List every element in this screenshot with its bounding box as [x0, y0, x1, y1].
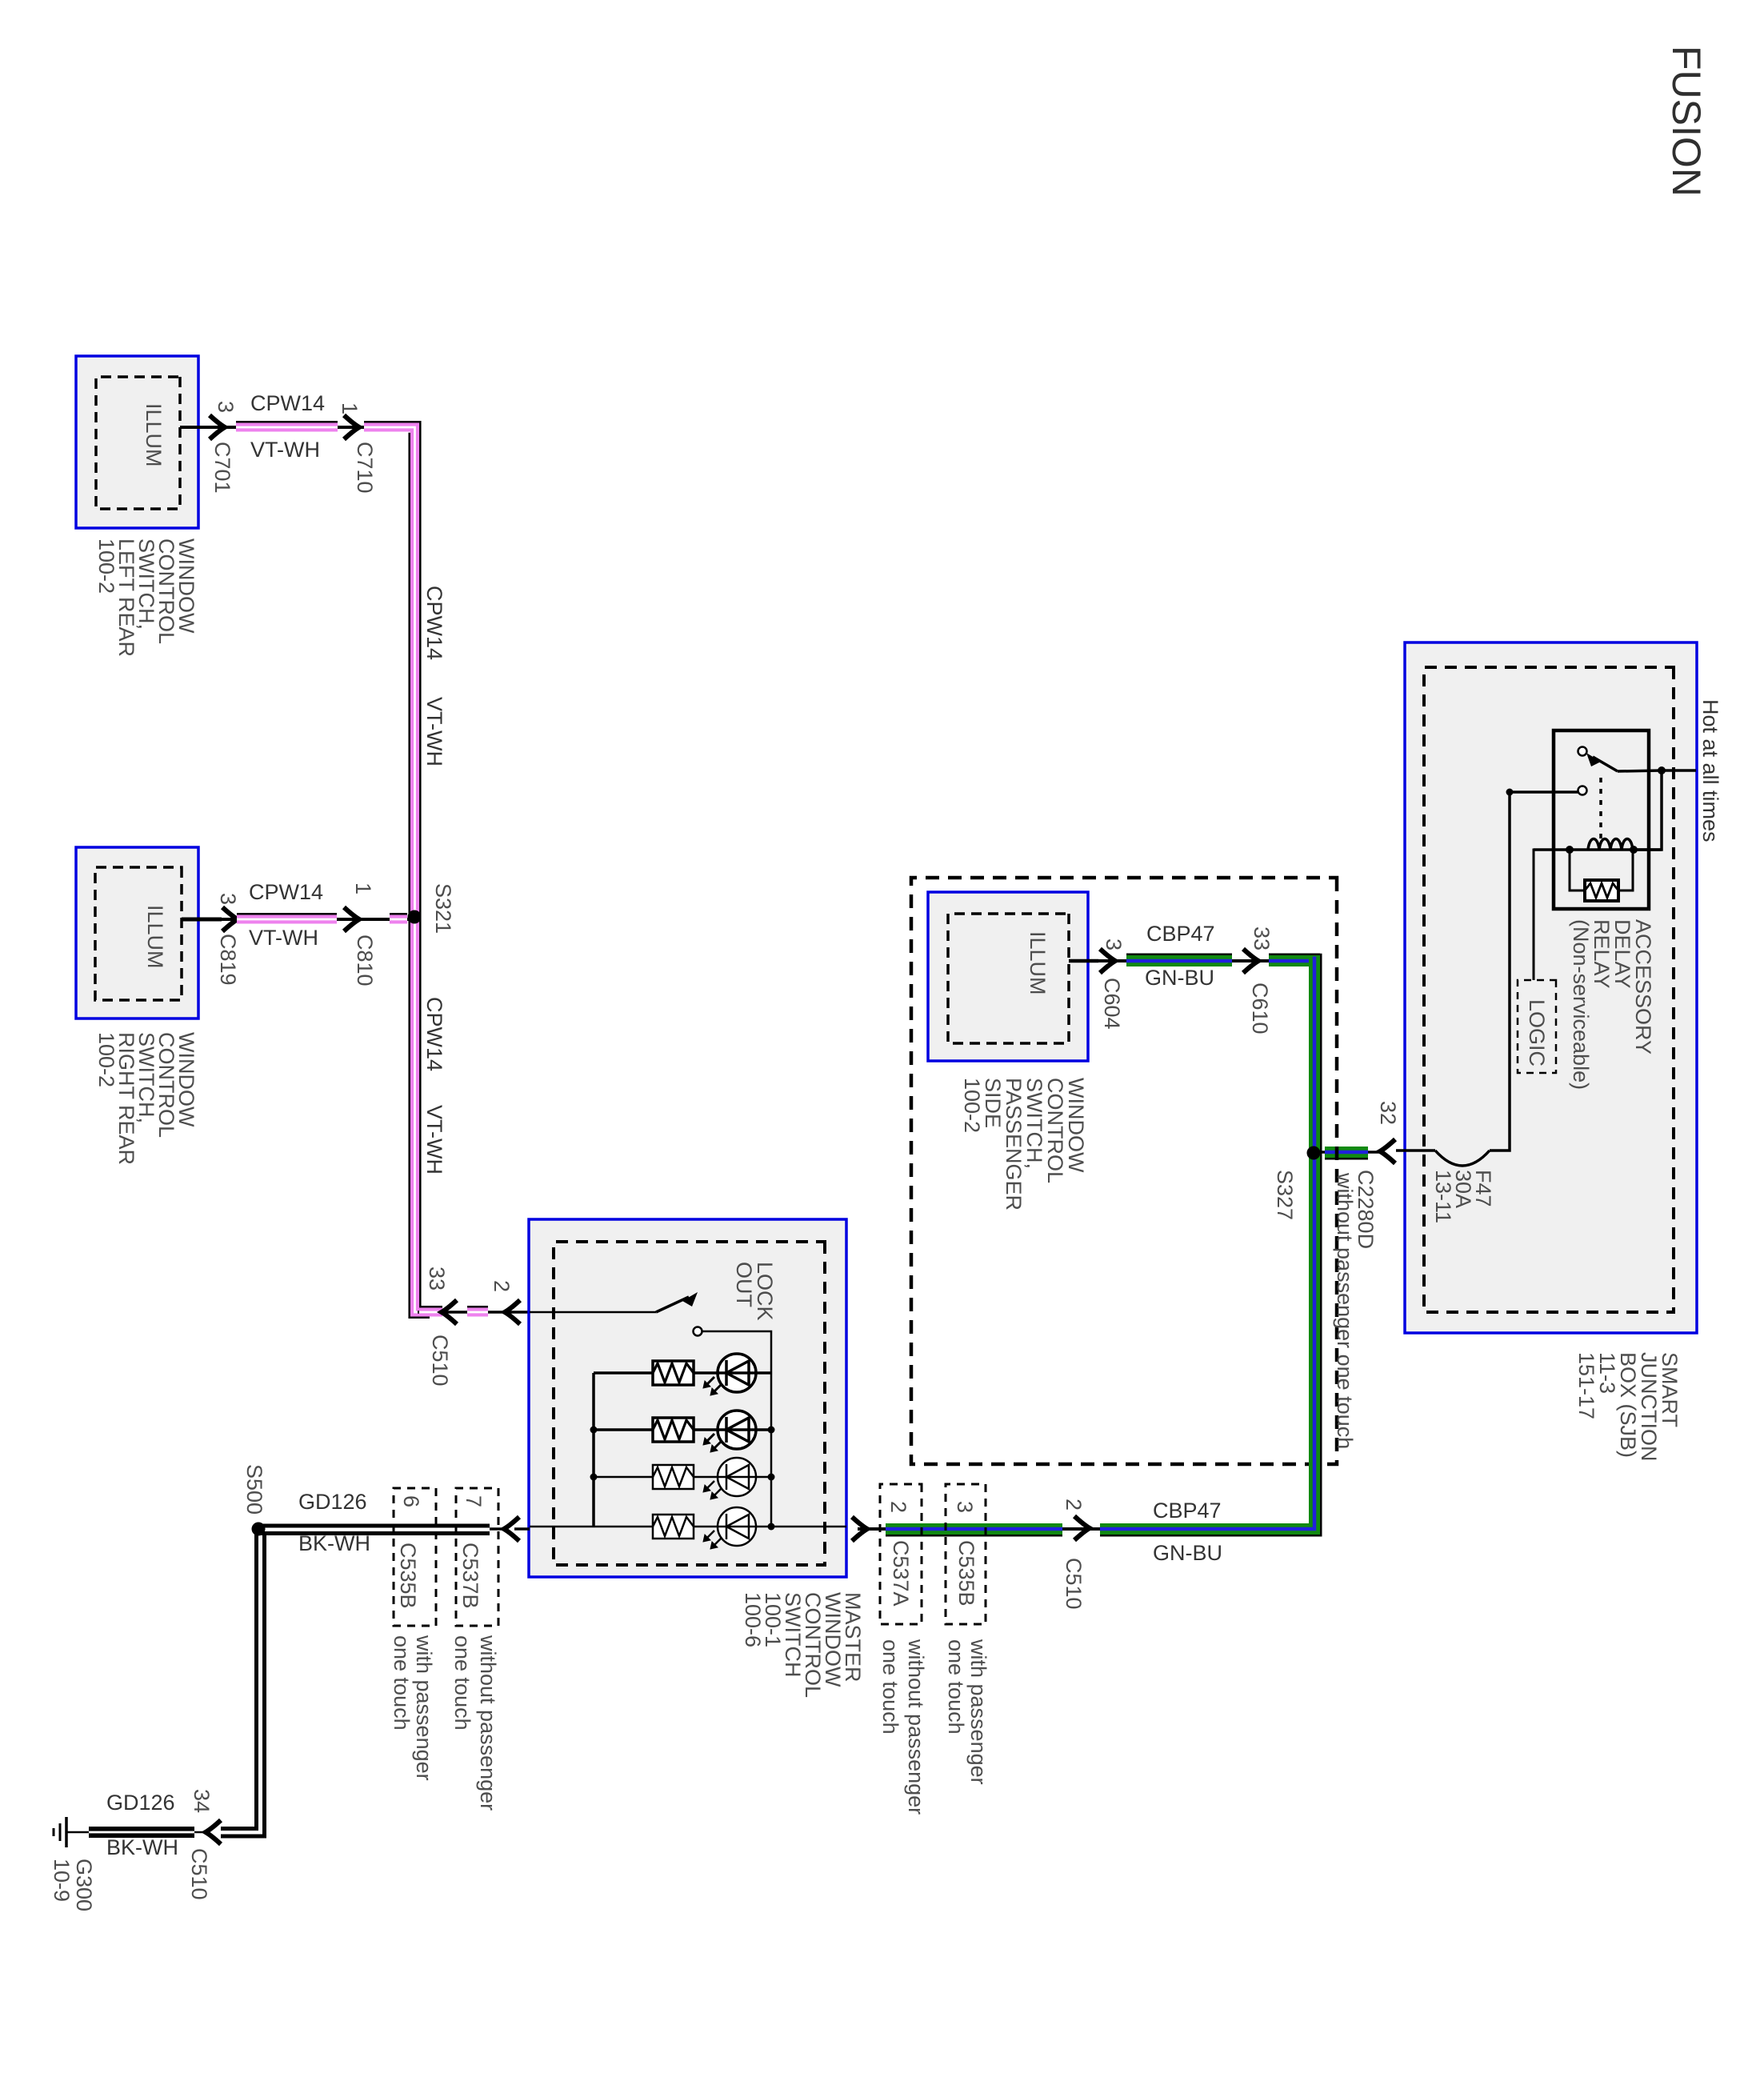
node feed junction: [1658, 766, 1666, 774]
wire riser band upper piece: [1269, 954, 1320, 961]
fuse F47: [1435, 1151, 1490, 1166]
svg-text:CPW14: CPW14: [249, 880, 323, 904]
wire GN-BU run lower band: [886, 1529, 1062, 1535]
LED D3: [718, 1458, 756, 1496]
wire CBP47 GN-BU labeled segment: [1126, 954, 1232, 961]
svg-text:S500: S500: [242, 1464, 266, 1515]
lockout switch blade: [656, 1297, 689, 1312]
svg-text:VT-WH: VT-WH: [422, 1105, 446, 1175]
wire from master box to GD126 arrow: [514, 1527, 530, 1531]
wire riser2 centerline: [182, 918, 414, 921]
window control switch passenger side dashed box: [911, 878, 1337, 1464]
svg-text:C535B: C535B: [954, 1540, 978, 1607]
wire coil top to resistor: [1618, 850, 1633, 890]
svg-text:151-17: 151-17: [1574, 1352, 1598, 1419]
svg-text:VT-WH: VT-WH: [250, 438, 320, 462]
svg-text:CPW14: CPW14: [422, 586, 446, 660]
window control switch left rear box: [76, 356, 198, 528]
svg-text:GN-BU: GN-BU: [1153, 1541, 1222, 1565]
node S500: [252, 1523, 266, 1536]
svg-text:2: 2: [1062, 1499, 1086, 1511]
wire CBP47 GN-BU bus bands: [1100, 954, 1321, 1535]
wire main line through box: [530, 1526, 846, 1528]
svg-text:S327: S327: [1273, 1170, 1297, 1220]
LED D2: [718, 1411, 756, 1449]
svg-text:with passenger: with passenger: [966, 1639, 990, 1785]
svg-text:C535B: C535B: [396, 1543, 420, 1609]
connector arrow box bottom: [504, 1517, 519, 1541]
ground G300: [66, 1831, 89, 1834]
wire C2280D stub centerline: [1314, 1151, 1380, 1154]
node dots bottom bus: [590, 1427, 598, 1434]
svg-text:13-11: 13-11: [1431, 1170, 1455, 1223]
svg-text:100-2: 100-2: [960, 1078, 984, 1133]
svg-text:Hot at all times: Hot at all times: [1698, 699, 1722, 842]
connector arrow 3 C701: [210, 415, 225, 439]
dashed actuator link: [1599, 778, 1602, 843]
LOGIC block: [1518, 980, 1556, 1073]
svg-text:ILLUM: ILLUM: [143, 905, 167, 969]
wire lockout feed: [530, 1311, 656, 1314]
connector C535B inline box: [946, 1484, 986, 1624]
svg-text:BK-WH: BK-WH: [298, 1531, 370, 1555]
svg-text:one touch: one touch: [450, 1635, 474, 1731]
svg-text:with passenger: with passenger: [412, 1635, 436, 1781]
pin 32 arrow: [1380, 1139, 1395, 1163]
wire riser1 centerline: [180, 426, 412, 429]
node S321: [408, 910, 422, 924]
svg-text:LOGIC: LOGIC: [1525, 999, 1549, 1067]
svg-text:100-2: 100-2: [94, 538, 118, 594]
wire CBP47 GN-BU bus centerline: [858, 961, 1314, 1529]
wire GD126 labeled segment: [194, 1831, 206, 1834]
wire hot feed into relay: [1662, 769, 1696, 772]
resistor in relay: [1585, 880, 1618, 901]
wire short pink stub: [390, 914, 407, 919]
svg-text:GD126: GD126: [106, 1791, 175, 1815]
node elbow: [1506, 789, 1514, 796]
smart junction box (SJB): [1405, 642, 1697, 1333]
svg-text:without passenger one touch: without passenger one touch: [1333, 1172, 1357, 1449]
svg-text:1: 1: [338, 402, 362, 414]
connector C537A inline box: [880, 1484, 922, 1624]
svg-text:32: 32: [1376, 1101, 1400, 1125]
arrow into master switch: [852, 1517, 867, 1541]
svg-text:C810: C810: [353, 934, 377, 986]
svg-text:6: 6: [399, 1495, 423, 1507]
svg-text:C710: C710: [353, 442, 377, 494]
connector arrow 1 C810: [344, 907, 359, 931]
svg-text:C604: C604: [1100, 978, 1124, 1030]
connector arrow 33 C610: [1243, 949, 1258, 973]
svg-text:10-9: 10-9: [50, 1859, 74, 1902]
svg-text:100-6: 100-6: [741, 1592, 765, 1647]
relay common contact: [1578, 786, 1587, 795]
wire riser2 thick stub: [182, 918, 222, 922]
LED D4: [718, 1507, 756, 1546]
svg-text:C819: C819: [216, 934, 240, 986]
svg-text:2: 2: [886, 1501, 910, 1513]
resistor R3: [653, 1465, 694, 1489]
node coil top: [1630, 846, 1638, 854]
svg-text:C510: C510: [187, 1848, 211, 1900]
svg-text:(Non-serviceable): (Non-serviceable): [1569, 919, 1593, 1090]
wire bottom bus: [592, 1373, 595, 1527]
svg-text:G300: G300: [72, 1859, 96, 1911]
svg-text:33: 33: [425, 1267, 449, 1291]
connector arrow 33 C510: [442, 1300, 457, 1324]
wire right riser pink piece1: [419, 1308, 442, 1317]
wire CPW14 VT-WH segment B: [237, 914, 337, 919]
node coil bottom: [1566, 846, 1574, 854]
wire fuse to pin 32: [1396, 1149, 1435, 1152]
wire to fuse: [1490, 792, 1510, 1151]
wire GD126 double line to S500: [490, 1527, 504, 1531]
wire right riser pink piece2: [467, 1307, 488, 1312]
relay coil: [1534, 848, 1662, 851]
wire resistor bottom to coil bottom: [1570, 850, 1585, 890]
svg-text:FUSION: FUSION: [1664, 46, 1709, 197]
svg-text:33: 33: [1250, 926, 1274, 950]
svg-text:CPW14: CPW14: [250, 391, 325, 415]
resistor R1: [653, 1361, 694, 1385]
svg-text:3: 3: [214, 401, 238, 413]
wire lockout to top bus: [702, 1331, 771, 1527]
window control switch passenger ILLUM box: [928, 892, 1088, 1061]
svg-text:one touch: one touch: [944, 1639, 968, 1735]
svg-text:CBP47: CBP47: [1146, 922, 1215, 946]
svg-text:without passenger: without passenger: [476, 1635, 500, 1811]
relay switch blade: [1593, 757, 1618, 771]
svg-text:S321: S321: [431, 883, 455, 934]
wire S500 to ground elbow double line: [221, 1533, 265, 1836]
connector arrow 2 C510: [1074, 1516, 1090, 1540]
connector C537B inline box: [456, 1488, 498, 1626]
connector arrow 3 C604: [1100, 949, 1115, 973]
svg-text:7: 7: [462, 1495, 486, 1507]
svg-text:C610: C610: [1248, 982, 1272, 1034]
wire ILLUM stub: [1069, 959, 1098, 963]
svg-text:ILLUM: ILLUM: [142, 403, 166, 467]
wire CPW14 pink bus with corners: [364, 422, 442, 1318]
svg-text:1: 1: [351, 882, 375, 894]
resistor R2: [653, 1418, 694, 1442]
connector arrow 3 C819: [222, 907, 238, 931]
connector arrow 1 C710: [344, 415, 359, 439]
svg-text:C701: C701: [210, 442, 234, 494]
resistor R4: [653, 1515, 694, 1539]
connector C535B inline box: [394, 1488, 436, 1626]
wire bus centerline (gaps): [418, 1311, 530, 1314]
svg-text:OUT: OUT: [732, 1262, 756, 1307]
svg-text:VT-WH: VT-WH: [422, 697, 446, 766]
svg-text:3: 3: [953, 1501, 977, 1513]
svg-text:GD126: GD126: [298, 1490, 367, 1514]
relay contact (NO): [1578, 747, 1587, 756]
wire feed to blade: [1618, 770, 1662, 771]
svg-text:CPW14: CPW14: [422, 997, 446, 1071]
wire relay common down: [1510, 790, 1578, 794]
LED D1: [718, 1354, 756, 1392]
window control switch right rear box: [76, 847, 198, 1018]
master window control switch box: [529, 1219, 846, 1577]
SJB inner dashed outline: [1424, 667, 1674, 1312]
wire GN-BU stub bands: [1325, 1147, 1368, 1158]
svg-text:C537A: C537A: [889, 1540, 913, 1607]
node dots top bus: [768, 1427, 775, 1434]
svg-text:C510: C510: [1062, 1558, 1086, 1610]
svg-text:ILLUM: ILLUM: [1026, 931, 1050, 995]
svg-text:C510: C510: [428, 1335, 452, 1387]
wire feed to coil top: [1634, 770, 1662, 850]
node S327: [1307, 1147, 1321, 1160]
lockout contact: [694, 1327, 702, 1336]
svg-text:one touch: one touch: [878, 1639, 902, 1735]
wire coil bottom to LOGIC: [1534, 850, 1570, 980]
wire branch 3: [594, 1476, 771, 1479]
svg-text:GN-BU: GN-BU: [1145, 966, 1214, 990]
wire CPW14 VT-WH segment A: [236, 422, 338, 427]
svg-text:34: 34: [190, 1789, 214, 1813]
connector arrow 2 lockout: [505, 1300, 520, 1324]
wire branch 1: [594, 1371, 771, 1375]
svg-text:CBP47: CBP47: [1153, 1499, 1222, 1523]
svg-text:3: 3: [216, 893, 240, 905]
wire CBP47 centerline (riser): [1069, 959, 1314, 962]
svg-text:100-2: 100-2: [94, 1032, 118, 1087]
accessory delay relay U1 box: [1554, 730, 1649, 909]
connector arrow 34 C510: [206, 1820, 221, 1844]
svg-text:without passenger: without passenger: [904, 1639, 928, 1815]
svg-text:C537B: C537B: [458, 1543, 482, 1609]
svg-text:2: 2: [490, 1280, 514, 1292]
svg-text:3: 3: [1102, 938, 1126, 950]
svg-text:VT-WH: VT-WH: [249, 926, 318, 950]
wire branch 2: [594, 1428, 771, 1431]
svg-text:BK-WH: BK-WH: [106, 1835, 178, 1859]
svg-text:one touch: one touch: [390, 1635, 414, 1731]
